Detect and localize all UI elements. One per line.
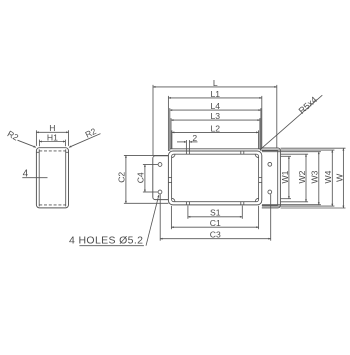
- dimension W4 ext bottom: [262, 205, 334, 207]
- dimension H1 ext right: [64, 140, 66, 147]
- dimension C1 ext right: [258, 206, 260, 229]
- dimension W1 ext top: [281, 155, 291, 157]
- dimension H1 ext left: [38, 140, 40, 147]
- note leader 4 holes: [146, 195, 159, 246]
- svg-text:4 HOLES Ø5.2: 4 HOLES Ø5.2: [69, 234, 143, 246]
- svg-text:W2: W2: [297, 170, 307, 183]
- right plate hole upper: [268, 162, 272, 166]
- dimension L4 ext right: [260, 108, 262, 149]
- dimension S1 ext left: [187, 206, 189, 219]
- radius leader R5x4: [260, 95, 322, 150]
- dimension C4 ext top: [143, 164, 158, 166]
- dimension H line: [36, 131, 68, 133]
- dimension W3 ext bottom: [262, 204, 321, 206]
- dimension W2 ext top: [281, 153, 308, 155]
- left view inner wall right: [65, 149, 67, 206]
- radius leader R2 left: [18, 140, 36, 147]
- dimension 2 line right segment: [189, 141, 197, 143]
- right plate rim bottom: [262, 204, 278, 206]
- svg-text:C3: C3: [210, 230, 221, 240]
- dimension H ext left: [35, 130, 37, 146]
- dimension W ext top: [281, 147, 346, 149]
- slot tick top a: [185, 140, 187, 154]
- middle view lid slab top line: [170, 148, 261, 150]
- right plate rim vertical: [277, 151, 279, 206]
- dimension H1 line: [39, 141, 65, 143]
- body outer rect: [168, 151, 261, 205]
- svg-text:L4: L4: [211, 101, 221, 111]
- left end plate: [153, 156, 169, 200]
- dimension W3 ext top: [262, 151, 321, 153]
- svg-text:W3: W3: [310, 170, 320, 183]
- svg-text:W1: W1: [280, 170, 290, 183]
- dimension L4 ext left: [169, 108, 171, 149]
- slot tick bottom d: [243, 202, 245, 205]
- dimension L ext left: [152, 85, 154, 156]
- body inner rect: [172, 154, 259, 202]
- dimension W3 line: [318, 152, 320, 205]
- dimension C4 line: [144, 165, 146, 193]
- dimension L2 line: [172, 131, 259, 133]
- dimension W4 ext top: [262, 149, 334, 151]
- dimension W line: [342, 148, 344, 208]
- middle view lid end right: [260, 149, 262, 151]
- left view inner wall left: [38, 149, 40, 206]
- dimension 2 line left segment: [177, 141, 186, 143]
- slot tick bottom b: [188, 202, 190, 205]
- slot tick bottom c: [240, 202, 242, 205]
- dimension L line: [153, 86, 277, 88]
- boss arc bottom-right: [255, 198, 258, 201]
- boss arc bottom-left: [172, 198, 175, 201]
- svg-text:L3: L3: [211, 111, 221, 121]
- dimension W2 ext bottom: [281, 201, 308, 203]
- left plate hole upper: [158, 163, 162, 167]
- left plate hole lower: [158, 190, 162, 194]
- dimension S1 line: [188, 216, 242, 218]
- boss arc top-right: [255, 154, 258, 157]
- wall tick right a: [259, 177, 262, 179]
- svg-text:L2: L2: [211, 123, 221, 133]
- dimension L2 ext right: [258, 130, 260, 148]
- boss arc top-left: [172, 154, 175, 157]
- dimension L3 ext right: [259, 118, 261, 149]
- svg-text:W: W: [334, 173, 344, 182]
- svg-text:C2: C2: [117, 172, 127, 183]
- svg-text:S1: S1: [210, 208, 221, 218]
- middle view lid end left: [169, 149, 171, 151]
- dimension H ext right: [68, 130, 70, 146]
- dimension C2 line: [125, 155, 127, 203]
- dimension L1 ext left: [167, 96, 169, 151]
- svg-text:4: 4: [23, 169, 29, 180]
- slot tick top b: [188, 140, 190, 154]
- svg-text:L1: L1: [211, 89, 221, 99]
- label 4 leader: [22, 177, 47, 179]
- svg-text:W4: W4: [323, 170, 333, 183]
- left view seam tick left: [36, 151, 39, 153]
- svg-text:C1: C1: [210, 218, 221, 228]
- svg-text:H1: H1: [47, 132, 58, 142]
- dimension L1 line: [168, 97, 261, 99]
- svg-text:2: 2: [192, 133, 197, 143]
- dimension C1 line: [171, 226, 258, 228]
- svg-text:R2: R2: [84, 126, 99, 140]
- dimension L1 ext right: [261, 96, 263, 148]
- wall tick left a: [168, 177, 171, 179]
- dimension S1 ext right: [241, 206, 243, 219]
- dimension C3 line: [160, 238, 271, 240]
- svg-text:C4: C4: [136, 172, 146, 183]
- left view hidden line bottom: [39, 204, 65, 206]
- dimension L3 ext left: [170, 118, 172, 149]
- left view seam tick right: [66, 151, 69, 153]
- dimension L4 line: [170, 109, 261, 111]
- dimension C2 ext bottom: [124, 202, 168, 204]
- right end plate: [262, 148, 281, 208]
- dimension W1 ext bottom: [281, 198, 291, 200]
- dimension W4 line: [331, 150, 333, 206]
- dimension L2 ext left: [171, 130, 173, 148]
- slot tick top c: [240, 151, 242, 154]
- slot tick bottom a: [185, 202, 187, 205]
- dimension C2 ext top: [124, 154, 168, 156]
- note underline: [79, 245, 143, 247]
- radius leader R2 right: [69, 134, 101, 148]
- svg-text:R5x4: R5x4: [297, 95, 319, 116]
- dimension C3 ext left: [159, 194, 161, 241]
- dimension L ext right: [276, 85, 278, 148]
- dimension W ext bottom: [281, 207, 346, 209]
- right plate hole lower: [268, 190, 272, 194]
- left view outer rect: [36, 148, 68, 208]
- dimension C4 ext bottom: [143, 191, 158, 193]
- wall tick left b: [168, 181, 171, 183]
- slot tick top d: [243, 151, 245, 154]
- svg-text:H: H: [49, 123, 55, 133]
- dimension L3 line: [171, 119, 260, 121]
- dimension W2 line: [305, 154, 307, 202]
- dimension C3 ext right: [270, 194, 272, 241]
- right plate rim top: [262, 150, 278, 152]
- left view hidden lid line top: [39, 150, 65, 152]
- svg-text:L: L: [213, 78, 218, 88]
- dimension C1 ext left: [170, 206, 172, 229]
- wall tick right b: [259, 181, 262, 183]
- dimension W1 line: [288, 156, 290, 198]
